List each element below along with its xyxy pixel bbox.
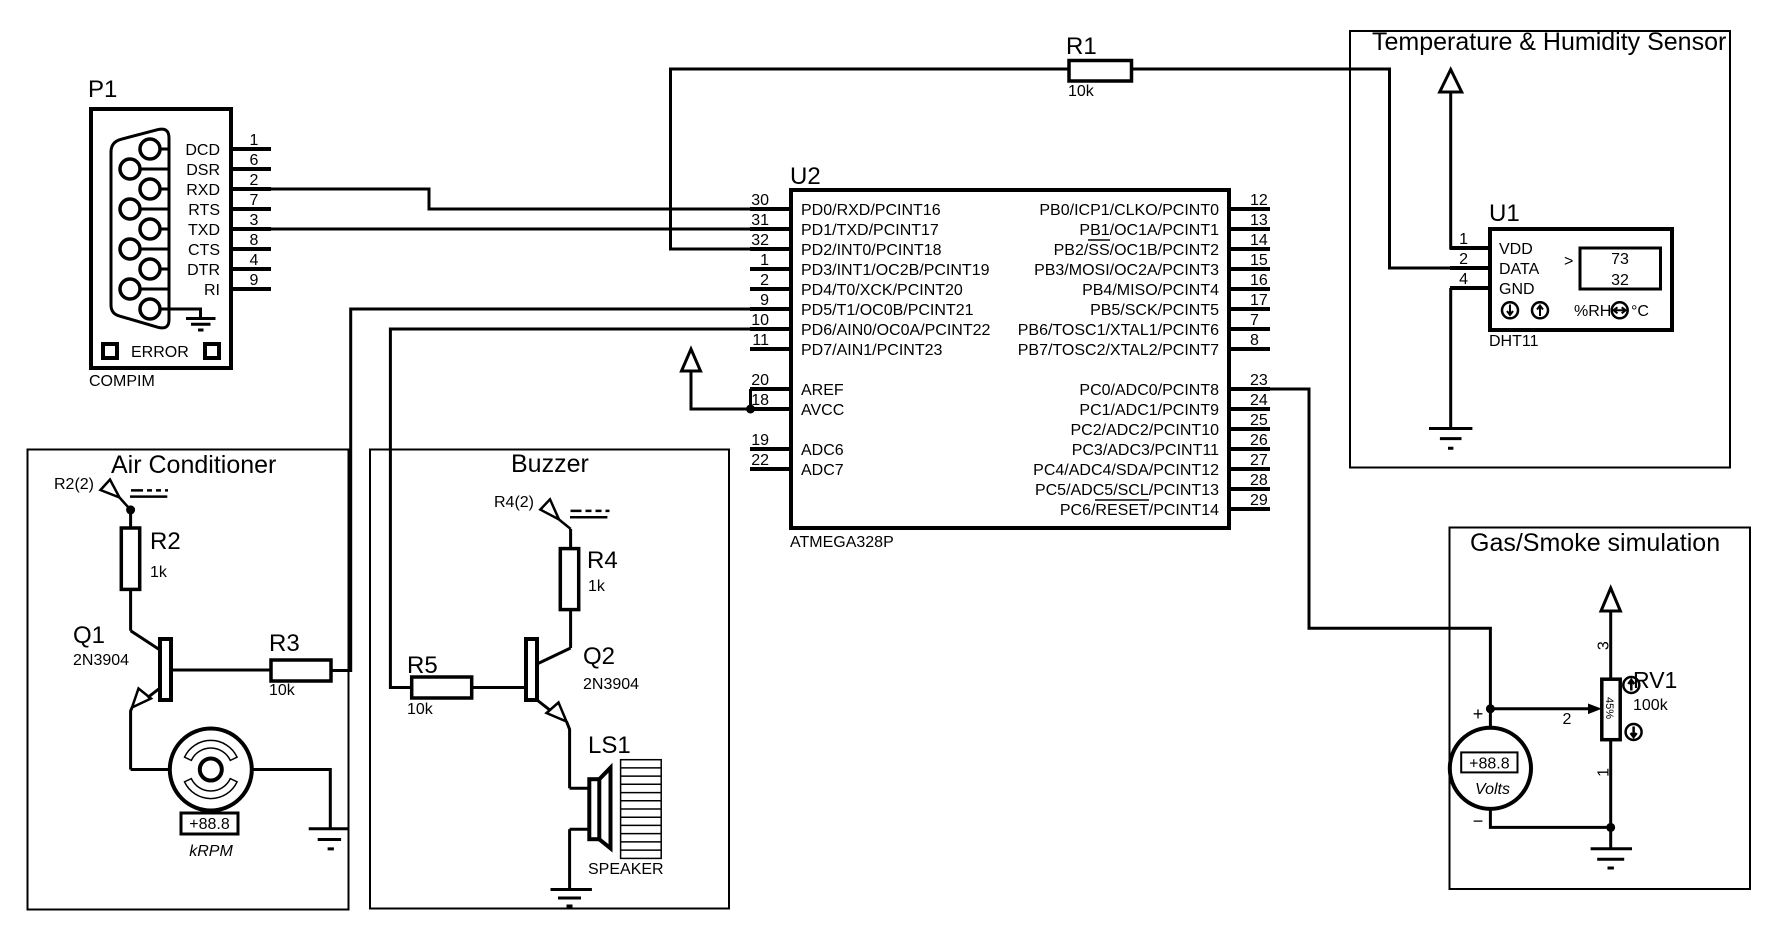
svg-text:7: 7 [1250,312,1259,329]
svg-text:Q1: Q1 [73,622,105,649]
svg-text:1k: 1k [588,578,606,595]
svg-text:32: 32 [1611,272,1629,289]
svg-text:Temperature & Humidity Sensor: Temperature & Humidity Sensor [1372,28,1726,56]
svg-text:+: + [1473,704,1484,724]
svg-text:10k: 10k [407,701,434,718]
svg-text:SPEAKER: SPEAKER [588,861,664,878]
svg-text:P1: P1 [88,76,117,103]
svg-text:12: 12 [1250,192,1268,209]
svg-text:31: 31 [751,212,769,229]
svg-text:DATA: DATA [1499,261,1540,278]
svg-text:2: 2 [1563,711,1572,728]
svg-text:2N3904: 2N3904 [583,676,639,693]
svg-text:COMPIM: COMPIM [89,373,155,390]
svg-text:45%: 45% [1603,697,1615,719]
svg-text:3: 3 [1596,641,1613,650]
svg-text:RV1: RV1 [1633,667,1677,693]
svg-text:8: 8 [1250,332,1259,349]
svg-text:100k: 100k [1633,697,1669,714]
svg-text:R2(2): R2(2) [54,476,94,493]
svg-text:PB1/OC1A/PCINT1: PB1/OC1A/PCINT1 [1079,222,1219,239]
svg-text:1: 1 [760,252,769,269]
svg-text:1: 1 [250,132,259,149]
svg-text:9: 9 [250,272,259,289]
svg-text:ADC6: ADC6 [801,442,844,459]
svg-text:29: 29 [1250,492,1268,509]
svg-text:+88.8: +88.8 [1469,756,1510,773]
svg-text:2: 2 [760,272,769,289]
svg-text:PC0/ADC0/PCINT8: PC0/ADC0/PCINT8 [1079,382,1219,399]
svg-text:PD4/T0/XCK/PCINT20: PD4/T0/XCK/PCINT20 [801,282,963,299]
svg-text:19: 19 [751,432,769,449]
svg-text:LS1: LS1 [588,732,631,759]
svg-text:TXD: TXD [188,222,220,239]
svg-text:6: 6 [250,152,259,169]
svg-text:PB7/TOSC2/XTAL2/PCINT7: PB7/TOSC2/XTAL2/PCINT7 [1018,342,1219,359]
svg-text:3: 3 [250,212,259,229]
svg-text:AREF: AREF [801,382,844,399]
svg-text:ATMEGA328P: ATMEGA328P [790,534,894,551]
svg-text:PB3/MOSI/OC2A/PCINT3: PB3/MOSI/OC2A/PCINT3 [1034,262,1219,279]
svg-text:°C: °C [1631,303,1649,320]
svg-text:PC2/ADC2/PCINT10: PC2/ADC2/PCINT10 [1071,422,1220,439]
svg-text:RI: RI [204,282,220,299]
svg-text:Buzzer: Buzzer [511,450,589,478]
svg-text:PB0/ICP1/CLKO/PCINT0: PB0/ICP1/CLKO/PCINT0 [1039,202,1219,219]
svg-text:PC1/ADC1/PCINT9: PC1/ADC1/PCINT9 [1079,402,1219,419]
svg-text:−: − [1473,811,1484,831]
svg-text:DCD: DCD [185,142,220,159]
svg-text:PD3/INT1/OC2B/PCINT19: PD3/INT1/OC2B/PCINT19 [801,262,990,279]
svg-text:U2: U2 [790,163,821,190]
svg-text:13: 13 [1250,212,1268,229]
svg-text:30: 30 [751,192,769,209]
svg-text:ADC7: ADC7 [801,462,844,479]
svg-text:R4: R4 [587,547,618,574]
svg-text:7: 7 [250,192,259,209]
svg-text:DTR: DTR [187,262,220,279]
svg-text:10k: 10k [1068,83,1095,100]
svg-text:PC4/ADC4/SDA/PCINT12: PC4/ADC4/SDA/PCINT12 [1033,462,1219,479]
svg-text:Volts: Volts [1475,781,1510,798]
svg-text:16: 16 [1250,272,1268,289]
svg-text:26: 26 [1250,432,1268,449]
svg-text:R1: R1 [1066,33,1097,60]
svg-text:2N3904: 2N3904 [73,652,129,669]
svg-text:ERROR: ERROR [131,344,189,361]
svg-text:1: 1 [1459,231,1468,248]
svg-text:22: 22 [751,452,769,469]
svg-text:PB2/SS/OC1B/PCINT2: PB2/SS/OC1B/PCINT2 [1054,242,1219,259]
svg-text:10: 10 [751,312,769,329]
svg-text:20: 20 [751,372,769,389]
svg-text:10k: 10k [269,682,296,699]
svg-text:32: 32 [751,232,769,249]
svg-text:PD0/RXD/PCINT16: PD0/RXD/PCINT16 [801,202,941,219]
svg-text:14: 14 [1250,232,1268,249]
svg-text:PD5/T1/OC0B/PCINT21: PD5/T1/OC0B/PCINT21 [801,302,974,319]
svg-text:11: 11 [752,332,769,349]
svg-text:PD6/AIN0/OC0A/PCINT22: PD6/AIN0/OC0A/PCINT22 [801,322,991,339]
svg-text:R4(2): R4(2) [494,494,534,511]
svg-text:4: 4 [250,252,259,269]
svg-text:PD1/TXD/PCINT17: PD1/TXD/PCINT17 [801,222,939,239]
svg-text:4: 4 [1459,271,1468,288]
svg-text:PB5/SCK/PCINT5: PB5/SCK/PCINT5 [1090,302,1219,319]
svg-text:R5: R5 [407,652,438,679]
svg-text:2: 2 [1459,251,1468,268]
svg-text:CTS: CTS [188,242,220,259]
svg-text:%RH: %RH [1574,303,1611,320]
svg-text:24: 24 [1250,392,1268,409]
svg-text:15: 15 [1250,252,1268,269]
svg-text:73: 73 [1611,251,1629,268]
svg-text:2: 2 [250,172,259,189]
svg-text:17: 17 [1250,292,1268,309]
svg-text:R3: R3 [269,630,300,657]
svg-text:AVCC: AVCC [801,402,844,419]
svg-text:RTS: RTS [188,202,220,219]
svg-text:>: > [1564,253,1573,270]
svg-text:8: 8 [250,232,259,249]
svg-text:9: 9 [760,292,769,309]
svg-text:PD2/INT0/PCINT18: PD2/INT0/PCINT18 [801,242,942,259]
svg-text:GND: GND [1499,281,1535,298]
svg-text:VDD: VDD [1499,241,1533,258]
svg-text:U1: U1 [1489,200,1520,227]
svg-text:PC3/ADC3/PCINT11: PC3/ADC3/PCINT11 [1072,442,1219,459]
svg-text:+88.8: +88.8 [189,816,230,833]
svg-text:Gas/Smoke simulation: Gas/Smoke simulation [1470,529,1720,557]
svg-text:28: 28 [1250,472,1268,489]
svg-text:RXD: RXD [186,182,220,199]
svg-text:DHT11: DHT11 [1489,333,1539,350]
svg-text:23: 23 [1250,372,1268,389]
svg-text:PC6/RESET/PCINT14: PC6/RESET/PCINT14 [1060,502,1219,519]
svg-text:PB6/TOSC1/XTAL1/PCINT6: PB6/TOSC1/XTAL1/PCINT6 [1018,322,1219,339]
svg-text:1k: 1k [150,564,168,581]
svg-text:PD7/AIN1/PCINT23: PD7/AIN1/PCINT23 [801,342,942,359]
svg-text:DSR: DSR [186,162,220,179]
svg-text:25: 25 [1250,412,1268,429]
svg-text:kRPM: kRPM [189,843,233,860]
svg-text:R2: R2 [150,528,181,555]
svg-text:Air Conditioner: Air Conditioner [111,451,276,479]
svg-text:27: 27 [1250,452,1268,469]
svg-text:PB4/MISO/PCINT4: PB4/MISO/PCINT4 [1082,282,1219,299]
svg-text:PC5/ADC5/SCL/PCINT13: PC5/ADC5/SCL/PCINT13 [1035,482,1219,499]
svg-text:Q2: Q2 [583,643,615,670]
